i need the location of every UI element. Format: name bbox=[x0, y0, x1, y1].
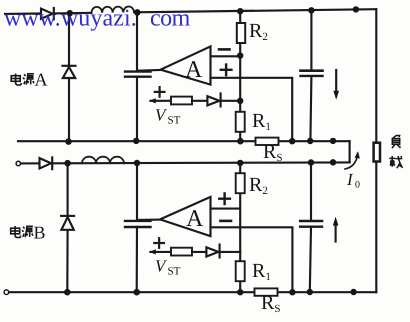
Vst source A: arrow and wire bbox=[151, 100, 172, 102]
wire right branch from top rail down to load bbox=[375, 9, 377, 142]
terminal circle bottom bbox=[4, 290, 9, 295]
wire op-amp B output bbox=[138, 219, 160, 222]
resistor R2 (channel A) bbox=[237, 23, 245, 43]
plus sign Vst B bbox=[154, 238, 164, 248]
node bottom/capB right bbox=[307, 289, 313, 295]
node top/diodeA col bbox=[67, 10, 73, 16]
diode D1 (series diode supply A) bbox=[41, 9, 53, 19]
svg-text:V: V bbox=[155, 106, 168, 125]
diode D2 (shunt diode A, pointing up) bbox=[63, 65, 76, 67]
wire inverting input stub B to sense node bbox=[211, 227, 293, 292]
node rail2/R2B bbox=[237, 160, 243, 166]
svg-text:A: A bbox=[186, 206, 204, 232]
plus sign U2 bbox=[219, 193, 230, 204]
label 电源A (hand-drawn CJK) bbox=[11, 74, 34, 86]
node top/capA col bbox=[134, 9, 141, 16]
op-amp U1 bbox=[161, 46, 211, 84]
wire rail 2 (supply B input) bbox=[21, 162, 350, 163]
node bottom right bbox=[350, 289, 356, 295]
capacitor C1 bbox=[125, 70, 151, 72]
node rail2 right bbox=[330, 159, 336, 165]
resistor RS (channel A) bbox=[256, 138, 279, 145]
inductor L1 bbox=[91, 6, 134, 12]
wire bracket joining rail1 and rail2 bbox=[349, 141, 351, 162]
node rail1/capA right bbox=[307, 138, 313, 144]
wire non-inverting input stub A to sense node bbox=[211, 78, 293, 141]
resistor Vst B bbox=[171, 248, 192, 256]
svg-text:A: A bbox=[185, 57, 203, 83]
inductor L2 bbox=[82, 157, 124, 164]
node bottom/diodeB bbox=[64, 289, 71, 296]
svg-text:V: V bbox=[155, 257, 168, 276]
wire load right branch up bbox=[375, 162, 377, 293]
node rail1/diodeA bbox=[65, 138, 72, 145]
load box bbox=[374, 143, 380, 162]
node rail2/diodeB bbox=[64, 160, 71, 167]
node top/capA right bbox=[308, 7, 314, 13]
svg-text:R2: R2 bbox=[249, 174, 268, 197]
svg-text:ST: ST bbox=[168, 115, 181, 127]
svg-text:R1: R1 bbox=[252, 110, 271, 133]
capacitor C3 bbox=[125, 220, 151, 222]
wire column A main (x=240) bbox=[239, 11, 241, 23]
wire non-inverting input stub B bbox=[211, 208, 241, 210]
capacitor C4 bbox=[300, 220, 322, 223]
node rail2/capB right bbox=[308, 159, 314, 165]
resistor RS (channel B) bbox=[255, 288, 278, 295]
svg-text:I: I bbox=[346, 170, 354, 189]
resistor R1 (channel A) bbox=[236, 112, 245, 132]
Vst source B: arrow and wire bbox=[151, 251, 172, 253]
node rail1/capA bbox=[133, 138, 139, 144]
node rail1/senseA bbox=[289, 138, 295, 144]
diode D4 (series diode supply B) bbox=[40, 158, 52, 168]
svg-text:R2: R2 bbox=[249, 20, 268, 43]
wire column diode A (x=69) bbox=[68, 13, 70, 66]
svg-text:com: com bbox=[150, 6, 191, 32]
svg-text:ST: ST bbox=[168, 266, 181, 278]
svg-text:www.wuyazi.: www.wuyazi. bbox=[4, 6, 137, 32]
node vstA bbox=[237, 98, 243, 104]
diode D5 (shunt diode B, pointing up) bbox=[61, 215, 74, 217]
wire bbox=[192, 100, 207, 102]
node bottom/R1B bbox=[237, 289, 243, 295]
wire column capacitor B left (x=137) bbox=[136, 163, 138, 220]
wire column capacitor A right (x=311.4) bbox=[310, 10, 312, 70]
resistor R1 (channel B) bbox=[236, 261, 245, 281]
I0 current arc bbox=[345, 154, 358, 170]
wire inverting input stub A bbox=[211, 55, 241, 57]
svg-text:B: B bbox=[34, 223, 46, 243]
label 电源B (hand-drawn CJK) bbox=[11, 226, 33, 238]
node rail1/R1A bbox=[237, 138, 244, 145]
svg-text:RS: RS bbox=[263, 141, 282, 164]
current arrow B (up) bbox=[335, 222, 337, 242]
node inv A bbox=[237, 52, 243, 58]
wire top rail bbox=[5, 12, 41, 15]
wire column capacitor A left (x=137) bbox=[136, 12, 138, 71]
wire column B main (x=240) bbox=[239, 163, 241, 173]
minus sign U2 bbox=[221, 220, 232, 223]
wire column capacitor B right (x=311) bbox=[310, 163, 312, 221]
minus sign U1 bbox=[219, 48, 230, 51]
wire bottom rail bbox=[9, 291, 255, 293]
node top right bbox=[353, 6, 359, 12]
wire bbox=[192, 251, 206, 253]
svg-text:R1: R1 bbox=[252, 260, 271, 283]
diode D3 (Vst A) bbox=[207, 96, 219, 105]
wire column diode B (x=67.6) bbox=[67, 163, 69, 216]
terminal circle B input bbox=[16, 161, 20, 165]
current arrow A (down) bbox=[335, 70, 337, 96]
node top/R2A bbox=[237, 8, 243, 14]
diode D6 (Vst B) bbox=[206, 247, 218, 256]
svg-text:A: A bbox=[35, 70, 48, 90]
wire op-amp A output bbox=[138, 69, 160, 72]
op-amp U2 bbox=[160, 197, 211, 236]
capacitor C2 bbox=[301, 69, 323, 72]
resistor Vst A bbox=[171, 97, 192, 105]
plus sign U1 bbox=[221, 65, 232, 76]
svg-text:0: 0 bbox=[355, 180, 360, 191]
plus sign Vst A bbox=[155, 87, 165, 97]
node rail2/capB bbox=[134, 160, 140, 166]
resistor R2 (channel B) bbox=[236, 173, 245, 193]
node bottom/senseB bbox=[289, 289, 295, 295]
wire rail 1 (mid rail A) bbox=[18, 140, 256, 142]
node bottom/capB bbox=[133, 289, 140, 296]
node rail1 right bbox=[330, 138, 336, 144]
label 负载 (load, hand-drawn CJK) bbox=[389, 135, 402, 168]
